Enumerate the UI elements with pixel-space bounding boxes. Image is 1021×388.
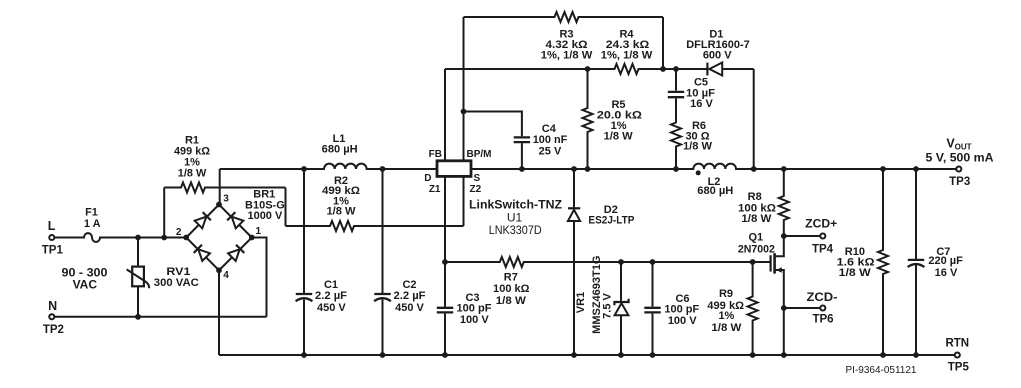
svg-text:1 A: 1 A — [84, 218, 101, 230]
svg-text:1: 1 — [256, 226, 262, 237]
svg-text:Q1: Q1 — [748, 232, 763, 244]
svg-text:220 µF: 220 µF — [928, 255, 963, 267]
svg-text:1%, 1/8 W: 1%, 1/8 W — [541, 50, 593, 62]
svg-text:450 V: 450 V — [317, 302, 346, 314]
svg-text:S: S — [474, 173, 481, 184]
svg-text:R7: R7 — [504, 271, 518, 283]
svg-text:Z2: Z2 — [470, 184, 482, 195]
svg-text:680 µH: 680 µH — [697, 185, 733, 197]
svg-text:5 V, 500 mA: 5 V, 500 mA — [926, 152, 994, 164]
svg-text:LinkSwitch-TNZ: LinkSwitch-TNZ — [469, 198, 562, 212]
svg-text:L: L — [48, 219, 56, 233]
svg-text:TP1: TP1 — [42, 245, 64, 257]
svg-text:1/8 W: 1/8 W — [839, 267, 872, 279]
svg-text:1/8 W: 1/8 W — [741, 213, 772, 225]
svg-text:R8: R8 — [748, 191, 762, 203]
svg-text:100 V: 100 V — [668, 315, 697, 327]
svg-text:LNK3307D: LNK3307D — [489, 223, 542, 237]
svg-text:2: 2 — [176, 227, 182, 238]
svg-text:TP2: TP2 — [43, 324, 64, 336]
svg-text:100 nF: 100 nF — [533, 134, 568, 146]
svg-text:1%, 1/8 W: 1%, 1/8 W — [601, 50, 653, 62]
svg-text:2.2 µF: 2.2 µF — [394, 290, 426, 302]
svg-text:1/8 W: 1/8 W — [683, 141, 713, 153]
svg-text:25 V: 25 V — [539, 146, 562, 158]
svg-text:1000 V: 1000 V — [247, 210, 283, 222]
svg-text:1/8 W: 1/8 W — [496, 295, 527, 307]
svg-text:450 V: 450 V — [395, 302, 424, 314]
svg-text:1%: 1% — [718, 310, 734, 322]
svg-text:ES2J-LTP: ES2J-LTP — [588, 215, 634, 227]
svg-text:TP6: TP6 — [812, 313, 833, 325]
svg-text:OUT: OUT — [955, 143, 972, 152]
svg-text:PI-9364-051121: PI-9364-051121 — [846, 365, 917, 376]
svg-text:100 pF: 100 pF — [664, 303, 699, 315]
svg-text:F1: F1 — [85, 207, 98, 219]
svg-text:1/8 W: 1/8 W — [604, 131, 634, 143]
svg-text:N: N — [48, 299, 57, 313]
svg-text:D: D — [424, 173, 431, 184]
svg-text:ZCD-: ZCD- — [807, 292, 838, 304]
svg-text:BP/M: BP/M — [467, 149, 492, 160]
svg-text:Z1: Z1 — [429, 184, 441, 195]
svg-text:100 V: 100 V — [460, 314, 489, 326]
svg-text:R9: R9 — [719, 288, 733, 300]
svg-text:2.2 µF: 2.2 µF — [315, 290, 347, 302]
svg-text:TP4: TP4 — [812, 244, 834, 256]
svg-text:3: 3 — [223, 193, 229, 204]
svg-text:16 V: 16 V — [935, 267, 958, 279]
svg-text:VAC: VAC — [73, 278, 98, 292]
svg-text:1/8 W: 1/8 W — [178, 168, 207, 180]
svg-text:RTN: RTN — [945, 337, 969, 349]
svg-text:FB: FB — [429, 149, 442, 160]
svg-text:VR1: VR1 — [575, 292, 587, 313]
svg-text:100 pF: 100 pF — [457, 303, 492, 315]
svg-text:600 V: 600 V — [703, 50, 732, 62]
svg-text:4: 4 — [223, 270, 229, 281]
svg-text:TP3: TP3 — [949, 176, 970, 188]
svg-text:1/8 W: 1/8 W — [327, 206, 357, 218]
svg-text:2N7002: 2N7002 — [738, 243, 775, 255]
svg-text:RV1: RV1 — [166, 266, 190, 278]
svg-text:ZCD+: ZCD+ — [805, 218, 837, 230]
svg-text:300 VAC: 300 VAC — [154, 277, 199, 289]
svg-text:1/8 W: 1/8 W — [711, 322, 742, 334]
svg-text:7.5 V: 7.5 V — [601, 292, 613, 318]
svg-text:680 µH: 680 µH — [322, 144, 358, 156]
svg-text:100 kΩ: 100 kΩ — [493, 283, 530, 295]
svg-text:TP5: TP5 — [948, 361, 970, 373]
svg-text:16 V: 16 V — [690, 98, 713, 110]
